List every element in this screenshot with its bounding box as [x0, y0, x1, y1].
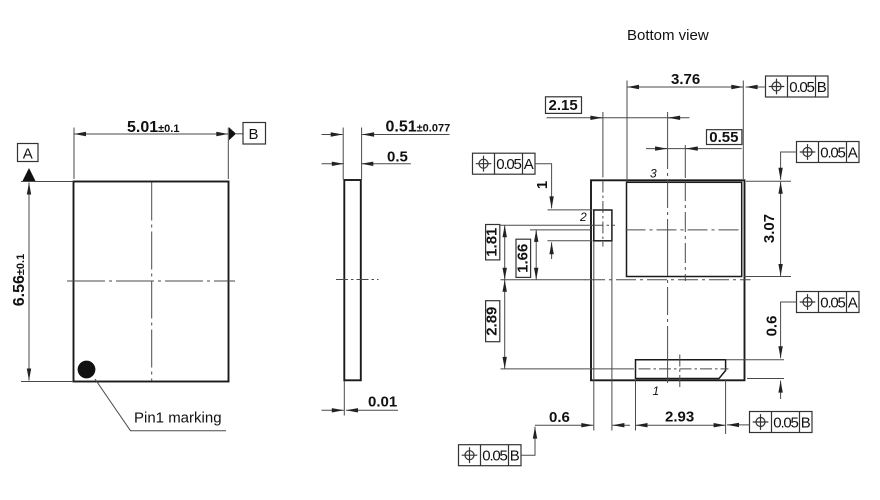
svg-text:0.55: 0.55: [709, 129, 738, 146]
package vertical center line: [667, 112, 669, 387]
top view bottom edge extension left: [21, 381, 74, 383]
datum A box: [18, 144, 39, 162]
pad 2 (small pad): [594, 210, 612, 241]
leader from upper right frame down: [781, 152, 797, 180]
pad 1 vertical center line: [679, 355, 681, 388]
feature control frame 0.05 A left: [473, 153, 536, 174]
svg-text:B: B: [510, 448, 520, 465]
svg-text:0.05: 0.05: [773, 414, 798, 431]
top view horizontal center line: [67, 280, 235, 282]
pad 2 center extension left: [501, 224, 593, 226]
svg-text:0.6: 0.6: [763, 316, 780, 337]
svg-text:1.66: 1.66: [514, 244, 531, 273]
dimension 0.5 arrows: [322, 163, 344, 165]
leader from lower right frame down: [781, 302, 797, 358]
dimension 3.76 line: [627, 86, 743, 88]
svg-text:B: B: [249, 126, 259, 143]
leader from bottom left frame up to 0.6 line: [521, 427, 535, 456]
side view bottom extension line: [343, 381, 345, 416]
pad 1 (bottom pad with chamfer): [636, 360, 726, 379]
svg-text:2.93: 2.93: [665, 409, 694, 426]
svg-text:0.05: 0.05: [820, 144, 845, 161]
pin 1 marking leader: [95, 379, 226, 431]
side view center line: [336, 279, 379, 281]
side view body outline: [344, 180, 361, 380]
svg-text:3.07: 3.07: [761, 214, 778, 243]
svg-text:0.05: 0.05: [820, 294, 845, 311]
svg-text:A: A: [848, 144, 858, 161]
dimension 1 lower arrow: [551, 242, 553, 259]
pad 1 center extension left: [501, 368, 635, 370]
svg-text:Bottom view: Bottom view: [627, 27, 709, 44]
svg-text:A: A: [524, 156, 534, 173]
pad 3 center extension left: [530, 229, 591, 231]
svg-text:A: A: [848, 294, 858, 311]
feature control frame 0.05 B bottom left: [459, 445, 522, 466]
svg-text:1: 1: [534, 181, 551, 189]
dimension 0.51±0.077 extension lines: [343, 128, 361, 180]
svg-text:0.05: 0.05: [496, 156, 521, 173]
svg-text:3.76: 3.76: [671, 71, 700, 88]
svg-text:0.05: 0.05: [789, 79, 814, 96]
feature control frame 0.05 B bottom right: [750, 412, 813, 433]
basic dimension box 1.81: [486, 225, 500, 260]
svg-text:B: B: [817, 79, 827, 96]
pad 1 left edge extension down: [635, 379, 637, 431]
datum B triangle: [229, 127, 236, 140]
dimension 1.81 line: [504, 225, 506, 280]
feature control frame 0.05 A upper right: [797, 142, 860, 163]
leader from left frame down: [535, 164, 552, 209]
svg-text:B: B: [801, 414, 811, 431]
dimension 2.15 line with outside arrows: [547, 117, 690, 119]
dimension 0.6 right arrow: [780, 381, 782, 399]
basic dimension box 2.89: [486, 301, 500, 342]
svg-text:0.6: 0.6: [549, 409, 570, 426]
datum B box: [243, 123, 266, 145]
pad 1 top edge extension right: [726, 359, 784, 361]
leader from frame to 3.76 extension: [746, 86, 766, 88]
svg-text:2: 2: [579, 210, 587, 224]
top view body outline: [74, 182, 229, 382]
pin 1 marking dot: [78, 361, 96, 379]
pad 3 left edge extension up: [626, 81, 628, 182]
top view vertical center line: [151, 183, 153, 382]
bottom view package outline: [591, 180, 745, 380]
svg-text:Pin1 marking: Pin1 marking: [134, 410, 222, 427]
datum A triangle: [23, 168, 36, 181]
pad 3 vertical center line: [684, 145, 686, 178]
dimension 2.89 line: [504, 280, 506, 369]
svg-text:1.81: 1.81: [484, 228, 501, 257]
dimension 2.93 line: [636, 424, 726, 426]
svg-text:2.89: 2.89: [484, 307, 501, 336]
pad 2 left edge extension down: [593, 241, 595, 431]
package horizontal center line: [585, 279, 751, 281]
dimension 5.01±0.1 line: [74, 133, 228, 135]
pad 2 horizontal center line: [592, 224, 616, 226]
basic dimension box 2.15: [546, 97, 582, 114]
datum B stem: [236, 133, 243, 135]
svg-text:0.05: 0.05: [482, 448, 507, 465]
pad 1 bottom edge extension right: [747, 378, 784, 380]
leader from bottom right frame to 2.93 extension: [727, 424, 750, 426]
package right edge extension up: [742, 81, 744, 180]
pad 1 horizontal center line: [639, 368, 729, 370]
dimension 5.01±0.1 extension lines: [74, 128, 228, 180]
basic dimension box 1.66: [516, 239, 531, 277]
svg-text:0.01: 0.01: [368, 394, 397, 411]
dimension 0.6 bottom arrows: [535, 424, 593, 426]
pad 3 top edge extension right: [746, 180, 791, 182]
svg-text:1: 1: [653, 384, 660, 398]
dimension 0.01 arrows: [322, 409, 344, 411]
svg-text:0.5: 0.5: [387, 149, 408, 166]
svg-text:A: A: [23, 146, 33, 163]
dimension 6.56±0.1 line: [28, 183, 30, 381]
dimension 3.07 line: [780, 182, 782, 276]
pad 3 horizontal center line: [626, 229, 743, 231]
feature control frame 0.05 B top: [766, 76, 829, 97]
top view top edge extension left: [21, 181, 74, 183]
pad 2 bottom edge extension left: [548, 240, 593, 242]
pad 3 bottom edge extension right: [744, 276, 791, 278]
pad 2 right edge extension down: [611, 241, 613, 431]
pad 2 top edge extension left: [548, 209, 593, 211]
package center extension left: [501, 279, 587, 281]
dimension 1.66 line: [535, 230, 537, 280]
svg-text:3: 3: [650, 166, 657, 180]
pad 1 right edge extension down: [725, 380, 727, 434]
dimension 0.55 line with outside arrows: [646, 148, 742, 150]
pad 2 vertical center line: [602, 112, 604, 178]
svg-text:2.15: 2.15: [549, 97, 578, 114]
feature control frame 0.05 A lower right: [797, 292, 860, 313]
pad 3 (large pad): [627, 182, 742, 276]
dimension 0.51±0.077 arrows: [322, 134, 343, 136]
basic dimension box 0.55: [707, 130, 742, 145]
